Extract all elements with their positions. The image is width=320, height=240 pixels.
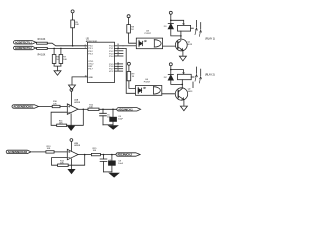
svg-text:9013: 9013: [188, 91, 193, 93]
optocoupler U3: [136, 30, 162, 48]
wire: [32, 151, 46, 153]
pin stub P1.0 / pin 19: [115, 44, 124, 46]
diode D1: [164, 23, 174, 29]
junction dot: [84, 154, 86, 156]
net label ADC2 (output): [116, 153, 140, 157]
svg-text:(RLAY 1): (RLAY 1): [205, 36, 215, 40]
resistor R8: [127, 25, 135, 33]
svg-text:R4 10K: R4 10K: [38, 55, 46, 57]
resistor R13: [46, 146, 54, 153]
wire IC P1.1 to opto U4 cathode (bus): [123, 48, 136, 93]
svg-text:PC817: PC817: [144, 82, 151, 84]
power VCC (relay 2): [169, 63, 172, 75]
power V- (U2A): [70, 114, 72, 126]
wire Q2 emitter: [183, 100, 185, 107]
svg-text:1K: 1K: [131, 29, 134, 31]
net label IN-A: [14, 40, 36, 44]
capacitor C7: [100, 155, 113, 172]
svg-text:(RLAY 2): (RLAY 2): [205, 73, 215, 77]
diode D2: [164, 75, 174, 81]
wire D2 anode to Q2 collector: [171, 80, 183, 84]
resistor R4: [37, 47, 48, 56]
wire IC P1.0 to opto U3 cathode: [123, 45, 136, 47]
wire IC GND pin: [72, 77, 87, 85]
ground (Q1): [179, 56, 186, 61]
pin stub VCC / pin 20: [115, 70, 123, 72]
wire relay K2 contact pin: [192, 82, 194, 88]
wire output to label: [100, 154, 115, 156]
wire opto U4 output to Q2 base: [162, 93, 178, 95]
svg-text:10K: 10K: [53, 103, 57, 105]
wire opto U3 output to Q1 base: [163, 45, 178, 47]
resistor R7 (termination): [59, 48, 67, 66]
junction dot: [180, 35, 182, 37]
wire feedback to output: [67, 109, 84, 125]
pin stub P1.3 / pin 16: [115, 52, 124, 54]
junction dot: [60, 48, 62, 50]
svg-text:PC817: PC817: [145, 33, 152, 35]
resistor R3: [37, 39, 48, 44]
pin stub P1.1 / pin 18: [115, 47, 124, 49]
resistor R10: [52, 101, 60, 108]
svg-text:LM358: LM358: [74, 102, 81, 104]
resistor R11 (feedback): [57, 120, 67, 126]
svg-text:AC/SENSE/CH01: AC/SENSE/CH01: [13, 105, 33, 109]
svg-text:100: 100: [93, 150, 97, 152]
wire K1 to Q1 collector: [180, 31, 182, 40]
net label IN-B: [14, 46, 37, 50]
svg-text:10: 10: [85, 75, 87, 77]
svg-text:AC/DETECT/L2: AC/DETECT/L2: [15, 46, 32, 50]
resistor R14 (feedback): [58, 160, 69, 166]
pin stub P1.5 / pin 14: [115, 62, 123, 64]
relay coil K2: [178, 73, 195, 80]
svg-text:R3 10K: R3 10K: [38, 39, 46, 41]
net label ADC1 (output): [117, 107, 141, 111]
ground (Q2): [180, 106, 187, 111]
ground (IC): [69, 85, 76, 90]
transistor Q1: [175, 39, 192, 51]
junction dot: [170, 69, 172, 71]
power VCC (pull-up): [71, 10, 74, 20]
wire R9 to opto U4 anode: [129, 81, 136, 89]
relay K2 contact: [195, 67, 202, 83]
net label SENSE1: [12, 105, 39, 109]
pin stub P1.7 / pin 12: [115, 67, 123, 69]
svg-text:10uF: 10uF: [118, 163, 123, 165]
svg-text:3: 3: [85, 47, 86, 49]
junction dot: [170, 20, 172, 22]
svg-text:10K: 10K: [60, 163, 64, 165]
ic U5 (MCU): [86, 38, 115, 83]
wire to op-amp: [54, 151, 67, 153]
ground (C5/C6): [109, 126, 118, 130]
svg-text:ADC/IN/CH.1: ADC/IN/CH.1: [118, 107, 133, 111]
svg-text:15: 15: [117, 54, 119, 56]
wire: [35, 41, 38, 44]
junction dot: [112, 109, 114, 111]
svg-text:AC/DETECT/L1: AC/DETECT/L1: [15, 40, 32, 44]
power V- (U2B): [71, 159, 73, 169]
wire output: [78, 154, 91, 156]
wire caps join: [104, 171, 112, 173]
junction dot: [102, 109, 104, 111]
power VCC (R9): [127, 62, 130, 71]
svg-text:20: 20: [117, 70, 119, 72]
wire line2 to IC: [47, 47, 87, 49]
wire: [39, 106, 53, 108]
power V+ (U2A): [70, 89, 73, 106]
svg-text:LM358: LM358: [74, 145, 81, 147]
capacitor C6 (electrolytic): [110, 109, 124, 125]
wire VCC node to relay K2: [171, 70, 184, 75]
svg-text:1K: 1K: [132, 76, 135, 78]
pin stub P1.6 / pin 13: [115, 65, 123, 67]
svg-text:10K: 10K: [75, 24, 79, 26]
wire Q1 emitter: [182, 50, 184, 56]
net label SENSE2: [6, 150, 31, 154]
wire VCC node to relay K1: [171, 20, 184, 25]
capacitor C8 (electrolytic): [109, 155, 124, 172]
wire pull-up to line1: [72, 28, 74, 46]
svg-text:10uF: 10uF: [118, 119, 123, 121]
wire K2 to Q2 collector: [181, 80, 183, 88]
wire feedback (inverting input): [51, 112, 67, 125]
junction dot: [111, 154, 113, 156]
svg-text:D2: D2: [164, 77, 168, 79]
op-amp U2B: [67, 143, 81, 160]
svg-text:AC/SENSE/CH02: AC/SENSE/CH02: [8, 150, 28, 154]
junction dot: [83, 109, 85, 111]
transistor Q2: [175, 88, 193, 100]
resistor R6 (termination): [52, 48, 60, 66]
op-amp U2A: [67, 99, 81, 115]
wire feedback (inverting input): [52, 158, 68, 166]
wire join: [54, 66, 61, 71]
relay coil K1: [178, 24, 194, 31]
wire line1 to IC: [47, 43, 87, 46]
power VCC (R8): [127, 15, 130, 25]
resistor R9: [127, 72, 135, 81]
wire D1 anode to Q1 collector: [171, 29, 181, 36]
optocoupler U4: [136, 79, 162, 95]
pin stub P1.4 / pin 15: [115, 54, 124, 56]
svg-text:AT89C2051: AT89C2051: [86, 40, 98, 43]
svg-text:10K: 10K: [63, 59, 67, 61]
resistor R15: [91, 148, 100, 156]
svg-text:VCC: VCC: [109, 71, 114, 73]
wire to op-amp: [60, 106, 67, 108]
capacitor C5: [100, 109, 112, 125]
junction dot: [103, 154, 105, 156]
wire output to label: [99, 108, 117, 110]
ground (C7/C8): [109, 173, 118, 177]
wire R8 to opto U3 anode: [129, 33, 137, 43]
resistor R12: [88, 104, 99, 110]
pin stub P1.2 / pin 17: [115, 49, 124, 51]
power VCC (relay 1): [169, 11, 172, 23]
junction dot: [72, 45, 74, 47]
wire caps join: [103, 124, 113, 126]
junction dot: [182, 84, 184, 86]
ground: [54, 71, 61, 76]
svg-text:ADC/IN/CH.2: ADC/IN/CH.2: [117, 153, 132, 157]
power V+ (U2B): [70, 139, 73, 152]
svg-text:9013: 9013: [187, 44, 192, 46]
junction dot: [53, 48, 55, 50]
svg-text:GND: GND: [88, 77, 93, 79]
wire output: [78, 108, 88, 110]
svg-text:10K: 10K: [47, 148, 51, 150]
resistor R5 (pull-up): [71, 20, 80, 28]
svg-text:10K: 10K: [59, 123, 63, 125]
wire feedback to output: [68, 155, 85, 166]
svg-text:D1: D1: [164, 26, 168, 28]
relay K1 contact: [195, 20, 202, 36]
